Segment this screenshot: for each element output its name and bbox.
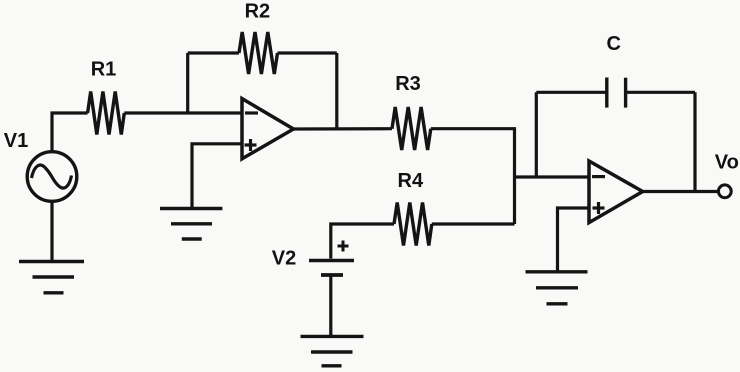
resistor R3: [392, 107, 431, 150]
op-amp U1 plus sign: [245, 139, 257, 151]
op-amp U2: [589, 161, 643, 223]
wire V1 bottom to ground: [50, 202, 53, 263]
wire capacitor left lead: [536, 91, 607, 94]
terminal Vo circle: [718, 185, 731, 198]
wire R2 left lead: [188, 51, 239, 54]
wire node A up to R2: [186, 53, 189, 113]
wire capacitor left branch down: [535, 92, 538, 177]
svg-text:R1: R1: [91, 58, 117, 80]
wire R1 to op-amp U1 inverting input: [124, 111, 242, 114]
wire R4 to junction: [432, 222, 515, 225]
wire R2 down to U1 output: [335, 53, 338, 129]
ground below V2: [301, 336, 364, 365]
ground below V1: [19, 262, 84, 293]
wire R2 right lead: [278, 51, 337, 54]
source V1 sine wave: [32, 165, 72, 188]
battery V2 plus sign: [338, 241, 349, 252]
svg-text:R3: R3: [395, 73, 421, 95]
wire U2 non-inverting input: [558, 208, 590, 272]
svg-text:V2: V2: [272, 248, 296, 270]
ground below U1 plus input: [160, 209, 222, 240]
wire capacitor right branch down to output: [693, 92, 696, 191]
svg-text:C: C: [606, 33, 620, 55]
wire U2 output to terminal: [643, 190, 718, 193]
source V1 circle: [27, 152, 77, 202]
battery V2 top plate: [309, 259, 354, 262]
wire battery to ground: [329, 275, 332, 336]
op-amp U2 plus sign: [593, 202, 605, 214]
resistor R1: [88, 92, 125, 135]
svg-text:V1: V1: [4, 130, 28, 152]
wire junction to U2 inverting input: [515, 175, 590, 178]
wire U1 non-inverting input: [192, 144, 242, 209]
resistor R4: [394, 203, 432, 246]
wire V1 top to R1 node: [52, 113, 88, 152]
svg-text:R4: R4: [398, 170, 424, 192]
battery V2 bottom plate: [321, 273, 343, 277]
op-amp U2 minus sign: [592, 175, 605, 178]
op-amp U1: [242, 99, 294, 159]
battery V2 positive lead wire: [331, 224, 394, 259]
wire R3 to junction: [431, 129, 515, 224]
svg-text:Vo: Vo: [715, 151, 739, 173]
capacitor C left plate: [605, 78, 608, 108]
resistor R2: [239, 32, 278, 74]
ground below U2 plus input: [526, 272, 588, 304]
svg-text:R2: R2: [245, 0, 271, 22]
capacitor C right plate: [624, 78, 627, 108]
wire capacitor right lead: [626, 91, 695, 94]
wire U1 output to R3: [294, 127, 393, 131]
op-amp U1 minus sign: [245, 111, 258, 114]
